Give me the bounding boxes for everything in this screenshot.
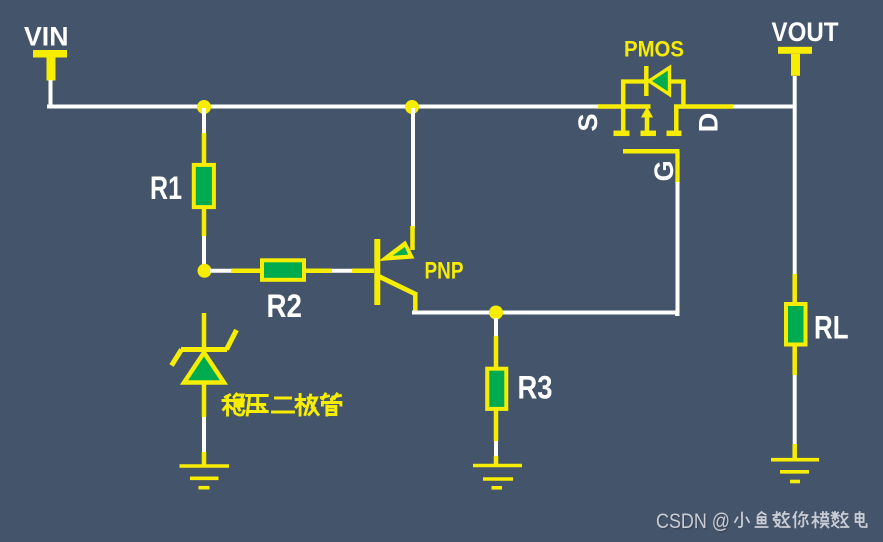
wire R1 bottom [202,209,207,268]
wire PNP emitter up [411,108,416,250]
svg-text:VIN: VIN [24,22,69,52]
wire gate down [675,182,678,314]
svg-text:G: G [649,160,679,181]
terminal VIN [33,50,67,81]
svg-text:S: S [573,113,603,131]
label PNP [425,258,464,285]
label PMOS [624,37,684,62]
drain lower vertical [674,107,679,132]
wire top rail white left [47,105,599,109]
label VIN [24,22,69,52]
label R1 [150,170,182,206]
svg-text:R2: R2 [267,288,303,324]
ground R3 [473,466,522,488]
pin label D [694,113,724,133]
svg-text:R1: R1 [150,170,182,206]
label zener (稳压二极管) [223,394,341,415]
node junction rail/PNP emitter [405,100,419,114]
terminal VOUT [778,47,812,76]
label R2 [267,288,303,324]
label RL [814,310,849,346]
source rail [598,104,651,109]
node junction R1/R2/zener [198,264,212,278]
wire PNP collector down [413,292,418,313]
transistor U1 PMOS [598,66,733,183]
wire R1 top [202,108,206,164]
svg-text:CSDN @: CSDN @ [656,510,730,533]
svg-text:PMOS: PMOS [624,37,684,62]
transistor Q1 PNP [377,239,415,305]
resistor R3 [487,369,506,409]
node junction collector/R3 [489,306,503,320]
resistor R1 [194,165,214,207]
wire RL bottom [792,346,797,459]
body diode line left [621,79,645,83]
ground zener [180,466,230,488]
svg-text:RL: RL [814,310,849,346]
svg-text:R3: R3 [518,370,553,406]
diode D1 zener [172,313,237,417]
resistor R2 [262,260,304,280]
body arrow [645,114,650,132]
wire collector rail [412,311,678,315]
wire R3 top [494,318,498,368]
drain rail [674,104,733,109]
node junction VIN/R1 [197,100,211,114]
wire R2 left [210,269,261,273]
svg-text:PNP: PNP [425,258,464,285]
source upper vertical [621,80,626,107]
drain upper vertical [681,80,686,107]
pin label S [573,113,603,131]
source lower vertical [621,107,626,132]
wire VIN vertical [49,80,53,108]
label R3 [518,370,553,406]
channel bars [614,131,630,137]
wire R2 right [306,269,374,274]
ground RL [771,460,819,482]
wire VOUT vertical [793,76,797,303]
wire drain rail white [733,105,796,109]
svg-text:D: D [694,113,724,133]
watermark CSDN [656,510,867,535]
label VOUT [772,17,839,47]
pin label G [649,160,679,181]
wire R3 bottom [494,409,499,465]
wire zener to ground [202,417,206,465]
resistor RL [786,304,806,345]
svg-text:VOUT: VOUT [772,17,839,47]
gate plate [623,149,680,154]
